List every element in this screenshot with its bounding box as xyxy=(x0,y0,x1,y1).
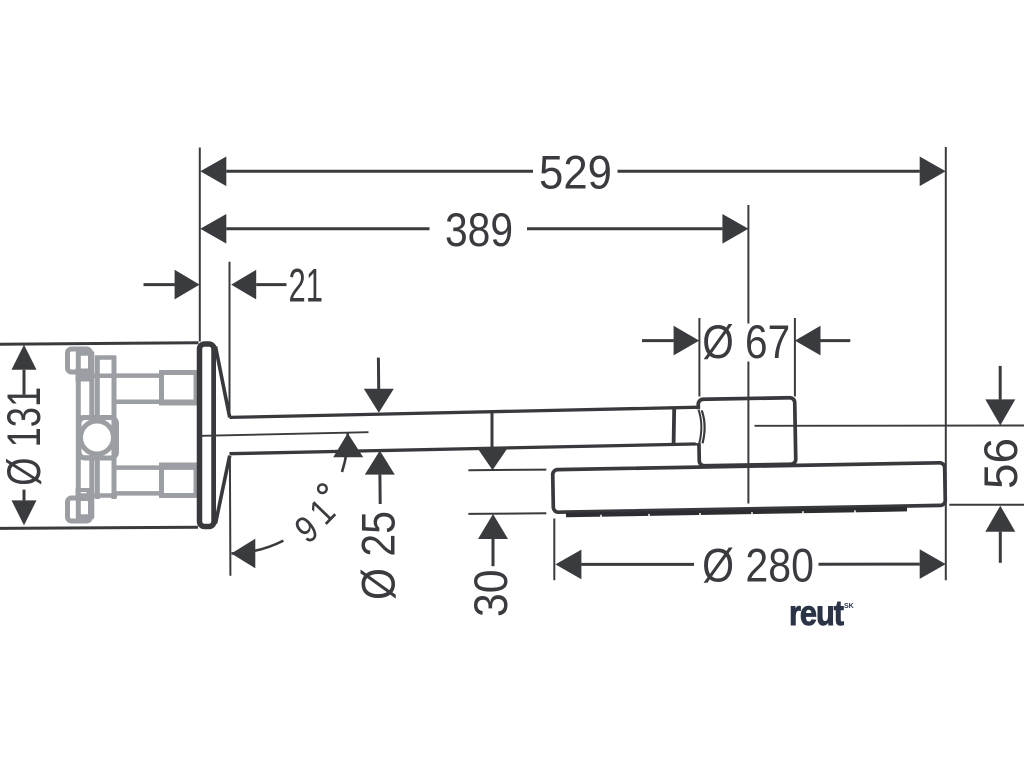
svg-text:529: 529 xyxy=(539,146,612,199)
node: extension line 389 lower through head xyxy=(747,362,749,504)
grey port top nut xyxy=(162,373,197,404)
svg-text:Ø 280: Ø 280 xyxy=(702,540,814,592)
grey rail rungs xyxy=(76,351,94,356)
node: extension line for 21 dim (x=229) xyxy=(229,262,231,417)
node: extension line 389 upper (x=748) xyxy=(747,205,749,324)
shower arm pipe xyxy=(230,407,700,454)
node: extension line dia67 right xyxy=(794,318,796,397)
node: centerline of arm (hidden line) xyxy=(202,432,369,436)
node: extension line right (x=946) xyxy=(945,147,947,580)
grey column 2 top rung xyxy=(95,355,116,360)
svg-text:SK: SK xyxy=(844,603,854,610)
pipe ring xyxy=(672,408,676,445)
dimension dia 67 xyxy=(642,339,850,342)
pipe bottom line xyxy=(230,444,700,454)
svg-text:reut: reut xyxy=(789,593,844,632)
connector block xyxy=(698,398,796,466)
svg-text:56: 56 xyxy=(974,438,1024,489)
node: extension line 56 bottom xyxy=(949,504,1024,506)
grey valve housing xyxy=(79,418,117,459)
svg-text:Ø 131: Ø 131 xyxy=(0,387,50,486)
dimension 389 xyxy=(226,227,722,230)
91 deg degree symbol xyxy=(318,484,327,493)
dimension 529 xyxy=(226,170,919,173)
dimension dia 25 xyxy=(378,358,380,504)
dimension dia 280 xyxy=(581,563,919,566)
node: extension line wall face lower (91 deg ref) xyxy=(229,456,232,576)
grey rail left edge xyxy=(76,352,81,518)
svg-text:Ø 25: Ø 25 xyxy=(353,511,405,600)
dimension 91 degrees arc xyxy=(342,433,348,472)
svg-text:Ø 67: Ø 67 xyxy=(702,316,790,368)
grey mounting foot bottom xyxy=(68,498,91,521)
grey foot nub top xyxy=(78,371,89,380)
node: extension line 56 top (axis line) xyxy=(755,425,1024,427)
wire: wall surface line top xyxy=(0,343,199,345)
grey mounting foot top xyxy=(68,349,91,372)
grey column 2 left xyxy=(95,356,100,499)
escutcheon cone xyxy=(216,347,230,524)
dimension 56 xyxy=(999,366,1002,563)
node: extension line dia280 left xyxy=(553,519,555,581)
pipe bulge curves at connector xyxy=(696,409,703,443)
shower head plate xyxy=(553,463,946,513)
grey port bottom lines xyxy=(117,465,199,470)
concealed installation unit (grey) xyxy=(68,349,199,521)
escutcheon wall plate xyxy=(200,344,215,527)
node: extension line left (x=200) xyxy=(199,148,201,342)
node: extension line 30 top xyxy=(468,469,546,472)
wire: wall surface line bottom xyxy=(0,527,198,528)
svg-text:21: 21 xyxy=(289,260,323,312)
grey port bottom nut xyxy=(162,465,197,496)
grey rail right edge xyxy=(89,352,94,518)
dimension dia 131 xyxy=(23,370,26,501)
dimension 21 xyxy=(144,283,287,286)
grey column 2 right xyxy=(112,356,117,499)
spray band notches xyxy=(601,510,855,517)
grey foot nub bottom xyxy=(78,490,89,499)
grey valve circle xyxy=(81,421,114,454)
svg-text:389: 389 xyxy=(445,204,513,256)
grey port top lines xyxy=(117,373,163,378)
svg-text:30: 30 xyxy=(464,570,517,617)
node: extension line 30 bottom xyxy=(468,512,546,515)
spray face band xyxy=(566,509,907,515)
node: extension line dia67 left xyxy=(698,318,700,397)
pipe top line xyxy=(230,407,700,417)
dimension 30 xyxy=(492,412,493,566)
